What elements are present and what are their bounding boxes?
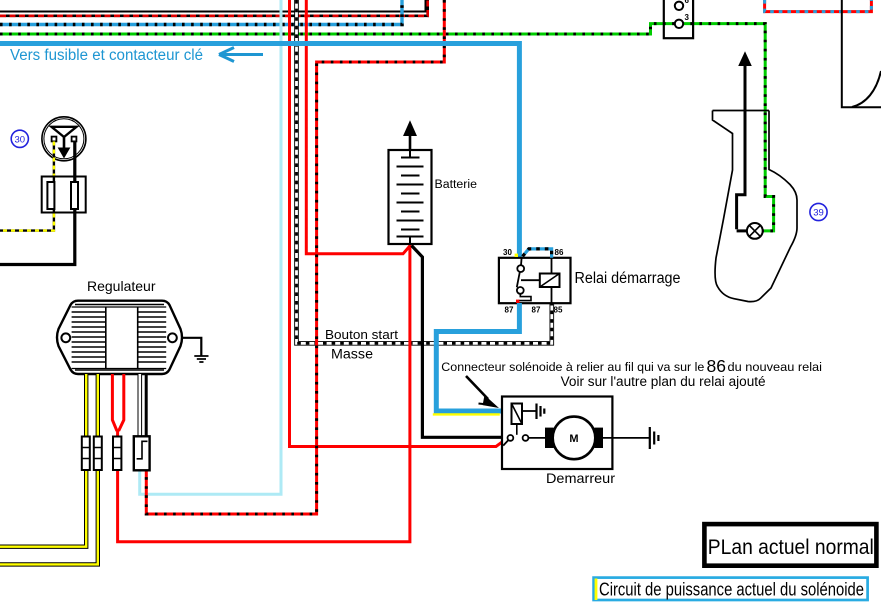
- svg-text:30: 30: [503, 248, 512, 257]
- wire blue/black dashed horizontal: [0, 0, 402, 25]
- svg-text:M: M: [569, 433, 578, 445]
- svg-text:85: 85: [554, 306, 563, 315]
- bullet connector yellow2: [94, 437, 102, 471]
- wire bouton start (white/black dashed) with masse run: [297, 0, 552, 343]
- label bouton start: [325, 327, 398, 342]
- svg-text:Vers fusible et contacteur clé: Vers fusible et contacteur clé: [10, 47, 203, 64]
- wire thick blue main: [0, 44, 519, 258]
- svg-text:Masse: Masse: [331, 347, 373, 362]
- svg-text:Regulateur: Regulateur: [87, 278, 156, 294]
- wire red/black dashed (solenoid feed loop): [146, 0, 444, 514]
- svg-text:Demarreur: Demarreur: [546, 470, 615, 486]
- ground solenoid: [522, 404, 544, 420]
- connector block left: [42, 177, 86, 213]
- wire black from flasher: [0, 142, 75, 265]
- svg-text:Bouton start: Bouton start: [325, 327, 398, 342]
- bullet connector red: [113, 437, 121, 471]
- flasher component left: [42, 117, 86, 161]
- relay pin 30 label: [503, 248, 512, 257]
- svg-text:Voir sur l'autre plan du rela: Voir sur l'autre plan du relai ajouté: [561, 374, 766, 389]
- svg-text:PLan actuel normal: PLan actuel normal: [708, 536, 874, 559]
- wire red/black dashed top horizontal: [0, 0, 428, 16]
- arrow black up (tail): [737, 53, 751, 231]
- lamp tail: [747, 223, 763, 239]
- connector top right: [664, 0, 693, 38]
- wire yellow 1 from regulator: [0, 374, 86, 547]
- wire red A (to demarreur switch): [290, 0, 504, 447]
- node 39 label: [810, 203, 827, 220]
- wire thick blue relay to solenoid: [436, 303, 519, 411]
- svg-text:39: 39: [813, 208, 824, 219]
- demarreur box: [502, 397, 612, 470]
- battery: [389, 122, 432, 245]
- label demarreur: [546, 470, 615, 486]
- svg-text:86: 86: [555, 248, 564, 257]
- node 30 label left: [11, 130, 28, 147]
- label regulateur: [87, 278, 156, 294]
- solenoid coil: [512, 404, 523, 435]
- relay pin 87 label: [505, 306, 514, 315]
- wire yellow 2 from regulator: [0, 374, 98, 564]
- relay internals: [517, 258, 560, 303]
- wire white from regulator: [138, 374, 143, 437]
- box circuit de puissance: [594, 578, 868, 600]
- svg-text:30: 30: [15, 134, 26, 145]
- wire red/blue dashed bridge top right: [765, 0, 872, 12]
- relay pin 86 label: [555, 248, 564, 257]
- annotation arrow: [466, 376, 497, 407]
- svg-text:Connecteur solénoide à relier: Connecteur solénoide à relier au fil qui…: [441, 360, 704, 374]
- label vers fusible: [10, 47, 203, 64]
- wire yellow/black dashed from flasher: [0, 142, 54, 231]
- annotation text line2: [561, 374, 766, 389]
- svg-text:du nouveau relai: du nouveau relai: [728, 360, 823, 374]
- node yellow at pin30: [515, 254, 518, 257]
- wire black from battery to demarreur: [412, 246, 508, 438]
- ground demarreur right: [603, 427, 658, 449]
- wire cyan (light blue): [140, 0, 281, 494]
- ground regulator: [182, 338, 209, 362]
- relay pin 85 label: [554, 306, 563, 315]
- svg-text:Circuit de puissance actuel du: Circuit de puissance actuel du solénoide: [599, 580, 864, 600]
- wire red from regulator to battery loop: [112, 245, 410, 542]
- switch contacts demarreur: [503, 435, 528, 446]
- label masse: [331, 347, 373, 362]
- box plan actuel normal: [704, 524, 876, 566]
- wire red B (to battery bottom): [306, 0, 410, 254]
- arrow blue left: [219, 48, 263, 62]
- fender outline right: [713, 111, 798, 302]
- label batterie: [435, 179, 478, 191]
- svg-text:Relai démarrage: Relai démarrage: [575, 270, 681, 287]
- wire black top horizontal: [0, 0, 426, 12]
- junction connector white/black: [134, 436, 150, 470]
- svg-text:87: 87: [505, 306, 514, 315]
- bullet connector yellow1: [82, 437, 90, 471]
- svg-text:86: 86: [707, 356, 726, 376]
- wire green/black dashed (to tail lamp): [0, 24, 774, 231]
- relay pin 87b label: [532, 306, 541, 315]
- motor demarreur: [528, 417, 603, 460]
- frame piece right edge: [842, 0, 881, 107]
- wire 86 jumper blue dashed: [523, 249, 552, 258]
- relay demarrage box: [499, 258, 571, 303]
- wire black from regulator: [145, 374, 148, 437]
- node red at pin87: [516, 300, 519, 303]
- svg-text:6: 6: [685, 0, 690, 5]
- label relai demarrage: [575, 270, 681, 287]
- svg-text:3: 3: [685, 13, 690, 22]
- annotation text line1: [441, 356, 822, 376]
- wire yellow under solenoid feed: [433, 413, 500, 415]
- svg-text:Batterie: Batterie: [435, 179, 478, 191]
- regulator body: [57, 301, 182, 374]
- svg-text:87: 87: [532, 306, 541, 315]
